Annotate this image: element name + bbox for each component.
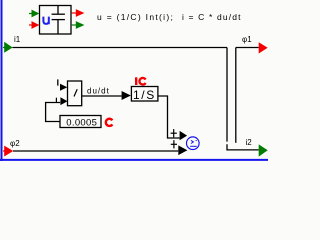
wire integrator output to summer: [158, 96, 180, 138]
label C (red): [106, 119, 113, 126]
wire phi1 horizontal to output: [236, 47, 259, 49]
input arrow i1 (green): [3, 42, 13, 53]
output arrow i2 (green): [259, 144, 268, 156]
label IC (red): [136, 77, 145, 85]
wire phi1 vertical: [235, 48, 237, 143]
symbol pin arrow green right-bottom: [72, 21, 85, 29]
wire i1 horizontal: [12, 47, 227, 49]
plus sign top input: [171, 129, 177, 137]
divider slash: [74, 89, 77, 96]
svg-text:i1: i1: [14, 35, 21, 44]
svg-text:φ2: φ2: [10, 139, 20, 148]
integrator block 1/S: [131, 87, 158, 102]
symbol pin arrow green left-top: [29, 10, 39, 18]
divider input arrow top: [60, 84, 67, 91]
svg-text:0.0005: 0.0005: [66, 118, 97, 129]
sigma glyph inside summer: [190, 140, 197, 146]
capacitor C plates inside symbol: [52, 6, 65, 34]
capacitor symbol box: [40, 6, 72, 35]
svg-text:i = C * du/dt: i = C * du/dt: [182, 12, 242, 22]
symbol pin arrow red right-top: [72, 9, 85, 17]
value box: [60, 116, 101, 128]
divider input stub top: [57, 79, 59, 85]
summer input arrow bottom: [178, 145, 187, 155]
summer block (blue circle): [187, 137, 200, 150]
symbol pin arrow red left-bottom: [29, 21, 39, 29]
summer input arrow top: [180, 131, 188, 140]
frame border bottom (blue): [0, 159, 268, 161]
wire segment below gap: [227, 144, 259, 150]
arrow into integrator: [122, 91, 131, 100]
plus sign bottom input: [171, 140, 177, 148]
input arrow phi2 (red): [3, 146, 13, 157]
svg-text:φ1: φ1: [242, 35, 252, 44]
output arrow phi1 (red): [259, 42, 268, 53]
divider input arrow bottom: [60, 97, 67, 105]
svg-text:u = (1/C) Int(i);: u = (1/C) Int(i);: [97, 12, 174, 22]
wire du/dt: [82, 95, 122, 97]
svg-text:1/S: 1/S: [133, 88, 156, 102]
wire phi2 horizontal: [13, 150, 178, 152]
divider input tick bottom: [55, 98, 57, 103]
wire from value box to divider input: [46, 103, 61, 122]
frame border left (blue): [1, 0, 3, 161]
svg-text:i2: i2: [246, 138, 253, 147]
svg-text:du/dt: du/dt: [87, 86, 110, 95]
wire i1 vertical down (with crossing gap): [226, 48, 228, 142]
symbol label u (blue): [43, 17, 48, 25]
divider block DIV: [68, 81, 82, 106]
